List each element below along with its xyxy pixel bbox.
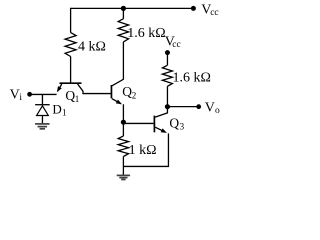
svg-text:1.6 kΩ: 1.6 kΩ: [173, 71, 211, 86]
svg-text:V: V: [205, 101, 215, 116]
svg-text:1: 1: [62, 107, 67, 117]
svg-text:cc: cc: [210, 8, 218, 18]
svg-text:D: D: [52, 102, 61, 117]
svg-text:1.6 kΩ: 1.6 kΩ: [127, 26, 165, 41]
svg-text:3: 3: [180, 122, 185, 132]
svg-text:1 kΩ: 1 kΩ: [129, 143, 157, 158]
svg-text:Q: Q: [122, 84, 132, 99]
svg-text:cc: cc: [172, 40, 180, 50]
svg-text:Q: Q: [169, 115, 179, 130]
svg-text:1: 1: [75, 94, 80, 104]
svg-text:V: V: [10, 87, 20, 102]
svg-text:4 kΩ: 4 kΩ: [78, 39, 106, 54]
svg-text:i: i: [19, 93, 22, 103]
svg-text:o: o: [215, 106, 220, 116]
svg-text:2: 2: [132, 90, 137, 100]
